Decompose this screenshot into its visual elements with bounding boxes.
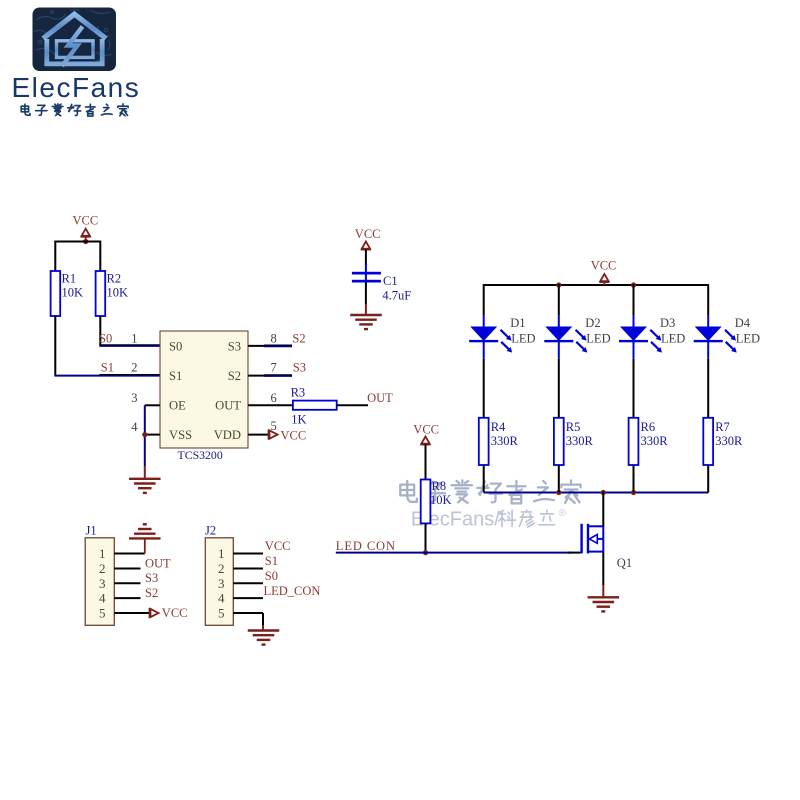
svg-text:2: 2 — [218, 561, 225, 576]
svg-text:VCC: VCC — [413, 422, 439, 436]
svg-text:3: 3 — [131, 391, 137, 405]
svg-text:R3: R3 — [291, 386, 306, 400]
svg-text:LED: LED — [586, 332, 610, 346]
svg-text:TCS3200: TCS3200 — [178, 448, 223, 462]
svg-text:S2: S2 — [145, 586, 158, 600]
svg-text:S3: S3 — [145, 571, 158, 585]
svg-text:6: 6 — [271, 391, 277, 405]
svg-text:VDD: VDD — [214, 428, 241, 442]
svg-text:R7: R7 — [715, 420, 730, 434]
svg-text:J2: J2 — [205, 523, 216, 537]
svg-text:S1: S1 — [169, 369, 182, 383]
svg-text:1: 1 — [131, 332, 137, 346]
svg-text:S2: S2 — [292, 332, 305, 346]
svg-text:4: 4 — [99, 591, 106, 606]
svg-text:R5: R5 — [566, 420, 581, 434]
svg-text:D3: D3 — [660, 316, 675, 330]
svg-text:C1: C1 — [383, 274, 398, 288]
svg-text:10K: 10K — [62, 285, 84, 299]
svg-text:S2: S2 — [228, 369, 241, 383]
svg-text:4.7uF: 4.7uF — [382, 289, 411, 303]
svg-text:LED CON: LED CON — [336, 539, 396, 553]
svg-text:4: 4 — [218, 591, 225, 606]
svg-text:D2: D2 — [585, 316, 600, 330]
svg-text:LED: LED — [511, 332, 535, 346]
svg-text:VCC: VCC — [281, 428, 307, 442]
svg-text:OE: OE — [169, 399, 186, 413]
svg-text:VCC: VCC — [591, 258, 617, 272]
svg-text:S0: S0 — [169, 339, 182, 353]
svg-text:R8: R8 — [432, 479, 447, 493]
svg-text:OUT: OUT — [215, 399, 241, 413]
svg-text:S3: S3 — [228, 339, 241, 353]
svg-text:LED_CON: LED_CON — [264, 584, 321, 598]
svg-text:330R: 330R — [641, 434, 669, 448]
svg-text:S1: S1 — [101, 361, 114, 375]
svg-text:S1: S1 — [265, 554, 278, 568]
svg-text:S0: S0 — [99, 332, 112, 346]
svg-text:2: 2 — [131, 361, 137, 375]
svg-text:10K: 10K — [107, 285, 129, 299]
svg-text:LED: LED — [736, 332, 760, 346]
svg-text:VSS: VSS — [169, 428, 192, 442]
svg-text:S3: S3 — [293, 361, 306, 375]
svg-text:5: 5 — [99, 606, 106, 621]
svg-text:7: 7 — [271, 361, 277, 375]
svg-text:330R: 330R — [491, 434, 519, 448]
svg-text:3: 3 — [218, 576, 225, 591]
svg-text:OUT: OUT — [367, 391, 393, 405]
svg-text:5: 5 — [218, 606, 225, 621]
svg-text:VCC: VCC — [265, 539, 291, 553]
svg-text:D1: D1 — [510, 316, 525, 330]
svg-text:LED: LED — [661, 332, 685, 346]
svg-text:R1: R1 — [62, 271, 77, 285]
svg-text:ElecFans: ElecFans — [12, 72, 141, 103]
svg-text:3: 3 — [99, 576, 106, 591]
svg-text:330R: 330R — [715, 434, 743, 448]
svg-text:VCC: VCC — [355, 227, 381, 241]
svg-text:1: 1 — [99, 546, 106, 561]
svg-text:330R: 330R — [566, 434, 594, 448]
svg-text:®: ® — [559, 508, 567, 519]
svg-text:R2: R2 — [107, 271, 122, 285]
svg-text:OUT: OUT — [145, 557, 171, 571]
svg-text:S0: S0 — [265, 569, 278, 583]
svg-text:R4: R4 — [491, 420, 506, 434]
svg-text:Q1: Q1 — [617, 556, 632, 570]
svg-text:R6: R6 — [641, 420, 656, 434]
svg-text:2: 2 — [99, 561, 106, 576]
svg-text:1K: 1K — [291, 413, 306, 427]
svg-text:4: 4 — [131, 420, 138, 434]
svg-text:VCC: VCC — [73, 214, 99, 228]
svg-text:8: 8 — [271, 332, 277, 346]
svg-text:5: 5 — [271, 419, 277, 433]
svg-text:VCC: VCC — [162, 606, 188, 620]
svg-text:10K: 10K — [430, 493, 452, 507]
svg-text:J1: J1 — [86, 523, 97, 537]
svg-text:1: 1 — [218, 546, 225, 561]
svg-text:D4: D4 — [735, 316, 751, 330]
